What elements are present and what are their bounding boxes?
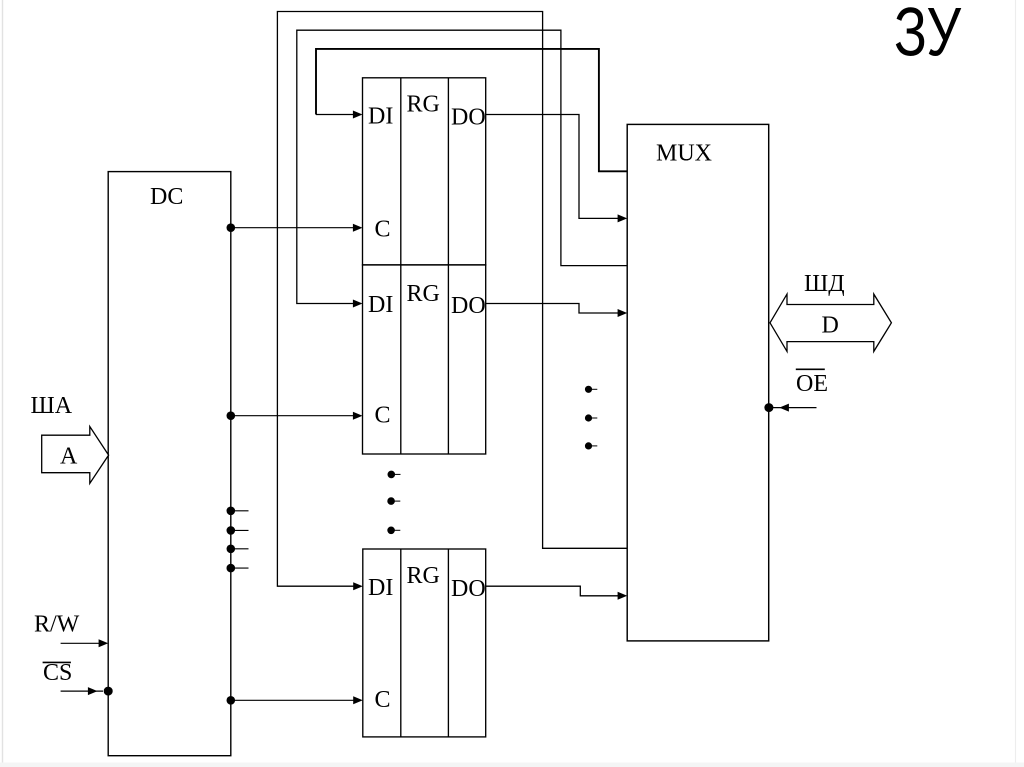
DC output stub 3 — [231, 548, 249, 550]
arrowhead into MUX (RG2 DO) — [618, 309, 628, 317]
svg-text:OE: OE — [796, 371, 828, 397]
wire OE into MUX — [769, 407, 817, 409]
arrowhead into RG1 DI — [353, 111, 363, 119]
svg-text:C: C — [375, 403, 391, 429]
svg-text:MUX: MUX — [656, 141, 712, 167]
wire feed bus to RG1 DI (inner loop, thick) — [316, 49, 627, 171]
arrowhead R/W — [99, 639, 109, 647]
register block RG3 — [363, 549, 486, 737]
svg-text:ЗУ: ЗУ — [894, 0, 962, 71]
page right faint border — [1015, 0, 1017, 767]
junction dot DC/RG3 C — [227, 696, 236, 705]
block DC — [108, 172, 231, 756]
register block RG2 — [363, 265, 486, 454]
svg-text:DO: DO — [451, 293, 486, 319]
DC output stub 1 — [231, 510, 249, 512]
svg-text:DI: DI — [368, 575, 393, 601]
junction dot DC/RG1 C — [227, 223, 236, 232]
wire RG3 DO to MUX — [486, 586, 621, 596]
svg-text:R/W: R/W — [34, 612, 80, 638]
svg-text:ШД: ШД — [804, 271, 845, 297]
ellipsis dots between RG2 and RG3 — [388, 471, 401, 533]
arrowhead into RG3 C — [353, 696, 363, 704]
svg-text:ША: ША — [31, 393, 73, 419]
page left faint border — [2, 0, 4, 767]
junction dot DC/RG2 C — [227, 411, 236, 420]
DC output stub 2 — [231, 529, 249, 531]
wire RG1 DO to MUX — [486, 115, 621, 219]
svg-text:DO: DO — [451, 105, 486, 131]
svg-text:RG: RG — [407, 92, 440, 118]
arrowhead into RG1 C — [353, 224, 363, 232]
arrowhead OE (points left) — [779, 404, 789, 412]
arrowhead into RG2 C — [353, 412, 363, 420]
wire DC to RG1 C — [231, 227, 356, 229]
arrowhead into MUX (RG1 DO) — [618, 214, 628, 222]
arrowhead into RG2 DI — [353, 300, 363, 308]
svg-text:DI: DI — [368, 292, 393, 318]
svg-text:DO: DO — [451, 576, 486, 602]
wire RG1 DI stub — [316, 114, 356, 116]
svg-text:CS: CS — [43, 660, 72, 686]
bus arrow ША (block arrow A) — [42, 427, 109, 484]
svg-text:RG: RG — [407, 281, 440, 307]
arrowhead CS — [88, 687, 98, 695]
junction dot CS at DC edge — [104, 687, 113, 696]
wire RG2 DO to MUX — [486, 304, 621, 314]
wire DC to RG2 C — [231, 415, 356, 417]
svg-text:DC: DC — [150, 184, 183, 210]
DC output stub 4 — [231, 567, 249, 569]
svg-text:C: C — [375, 217, 391, 243]
svg-text:C: C — [375, 687, 391, 713]
svg-text:D: D — [822, 313, 839, 339]
svg-text:A: A — [60, 444, 78, 470]
block MUX — [627, 124, 769, 641]
page bottom faint strip — [0, 763, 1024, 767]
svg-text:RG: RG — [407, 563, 440, 589]
arrowhead into MUX (RG3 DO) — [618, 592, 628, 600]
svg-text:DI: DI — [368, 104, 393, 130]
wire CS into DC — [61, 690, 103, 692]
junction dot OE at MUX edge — [764, 403, 773, 412]
wire R/W into DC — [61, 642, 102, 644]
wire DC to RG3 C — [231, 699, 356, 701]
wire feed bus to RG2 DI (middle loop) — [297, 30, 627, 303]
ellipsis dots between RG column and MUX — [585, 386, 597, 449]
wire feed bus to RG3 DI (outermost loop) — [277, 12, 627, 587]
register block RG1 — [363, 78, 486, 265]
arrowhead into RG3 DI — [353, 582, 363, 590]
bus arrow ШД (double-headed block arrow) — [770, 294, 891, 351]
